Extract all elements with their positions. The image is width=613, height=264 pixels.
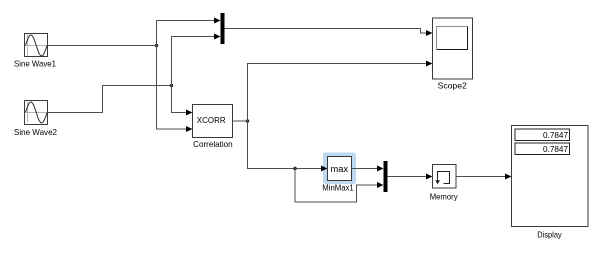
wire W2 trunk up to Mux1 input 1	[157, 18, 221, 46]
label Memory	[430, 191, 459, 201]
node junction J3 on XCORR output	[246, 119, 250, 123]
svg-text:Sine Wave2: Sine Wave2	[14, 127, 57, 137]
label Sine Wave2	[14, 127, 57, 137]
wire W3 trunk down to XCORR input 2	[157, 46, 193, 133]
block Scope2	[433, 18, 473, 79]
wire W1 from Sine Wave1 output to trunk junction	[48, 45, 157, 47]
selection highlight MinMax1	[323, 153, 356, 185]
wire W11 junction around below to Mux2 input 2	[295, 169, 384, 203]
svg-text:Sine Wave1: Sine Wave1	[14, 58, 56, 68]
svg-text:XCORR: XCORR	[197, 115, 226, 125]
label MinMax1	[322, 183, 354, 193]
node junction J4 before MinMax1	[293, 167, 297, 171]
wire W7 Mux1 output to Scope2 input 1	[225, 29, 433, 37]
wire W4 from Sine Wave2 output to trunk junction	[48, 86, 172, 113]
block Correlation XCORR	[193, 105, 233, 138]
node junction J1 on Sine Wave1 trunk	[155, 44, 159, 48]
svg-text:Scope2: Scope2	[438, 81, 468, 91]
wire W14 Memory output to Display input	[456, 174, 512, 180]
block Memory	[433, 165, 457, 189]
wire W5 trunk up to Mux1 input 2	[172, 34, 221, 86]
svg-text:Display: Display	[537, 229, 562, 239]
wire W10 junction down to MinMax1 input	[248, 121, 328, 172]
mux Mux1	[221, 13, 225, 44]
svg-text:max: max	[331, 164, 349, 174]
svg-text:MinMax1: MinMax1	[322, 183, 354, 193]
wire W6 trunk down to XCORR input 1	[172, 86, 193, 116]
block MinMax1	[328, 157, 352, 181]
svg-text:0.7847: 0.7847	[543, 144, 568, 154]
label Scope2	[438, 81, 468, 91]
wire W13 Mux2 output to Memory input	[387, 174, 433, 180]
svg-text:Correlation: Correlation	[193, 139, 233, 149]
block Sine Wave1	[25, 34, 48, 57]
wire W9 junction up to Scope2 input 2	[248, 61, 433, 122]
wire W8 XCORR output to junction	[233, 120, 248, 122]
wire W12 MinMax1 output to Mux2 input 1	[352, 166, 384, 172]
svg-text:Memory: Memory	[430, 191, 459, 201]
node junction J2 on Sine Wave2 trunk	[170, 84, 174, 88]
svg-text:0.7847: 0.7847	[543, 130, 568, 140]
block Display	[512, 126, 589, 227]
label Sine Wave1	[14, 58, 56, 68]
block Sine Wave2	[25, 101, 48, 125]
mux Mux2	[384, 161, 388, 192]
label Display	[537, 229, 562, 239]
label Correlation	[193, 139, 233, 149]
